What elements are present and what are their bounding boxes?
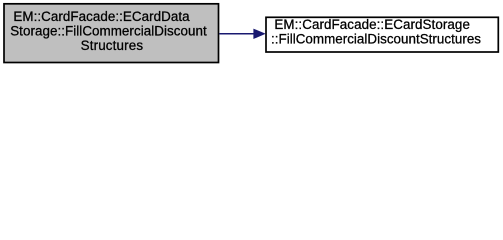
caller node box (current function, grey fill) <box>4 4 219 63</box>
callee node box (white fill) <box>266 17 498 52</box>
call edge wire (midnightblue) <box>219 33 254 35</box>
svg-text:Storage::FillCommercialDiscoun: Storage::FillCommercialDiscount <box>10 23 207 38</box>
call edge arrowhead <box>254 29 265 38</box>
svg-text:EM::CardFacade::ECardStorage: EM::CardFacade::ECardStorage <box>274 17 470 32</box>
svg-text:EM::CardFacade::ECardData: EM::CardFacade::ECardData <box>13 9 190 24</box>
svg-text:::FillCommercialDiscountStruct: ::FillCommercialDiscountStructures <box>271 31 481 46</box>
svg-text:Structures: Structures <box>81 38 144 53</box>
